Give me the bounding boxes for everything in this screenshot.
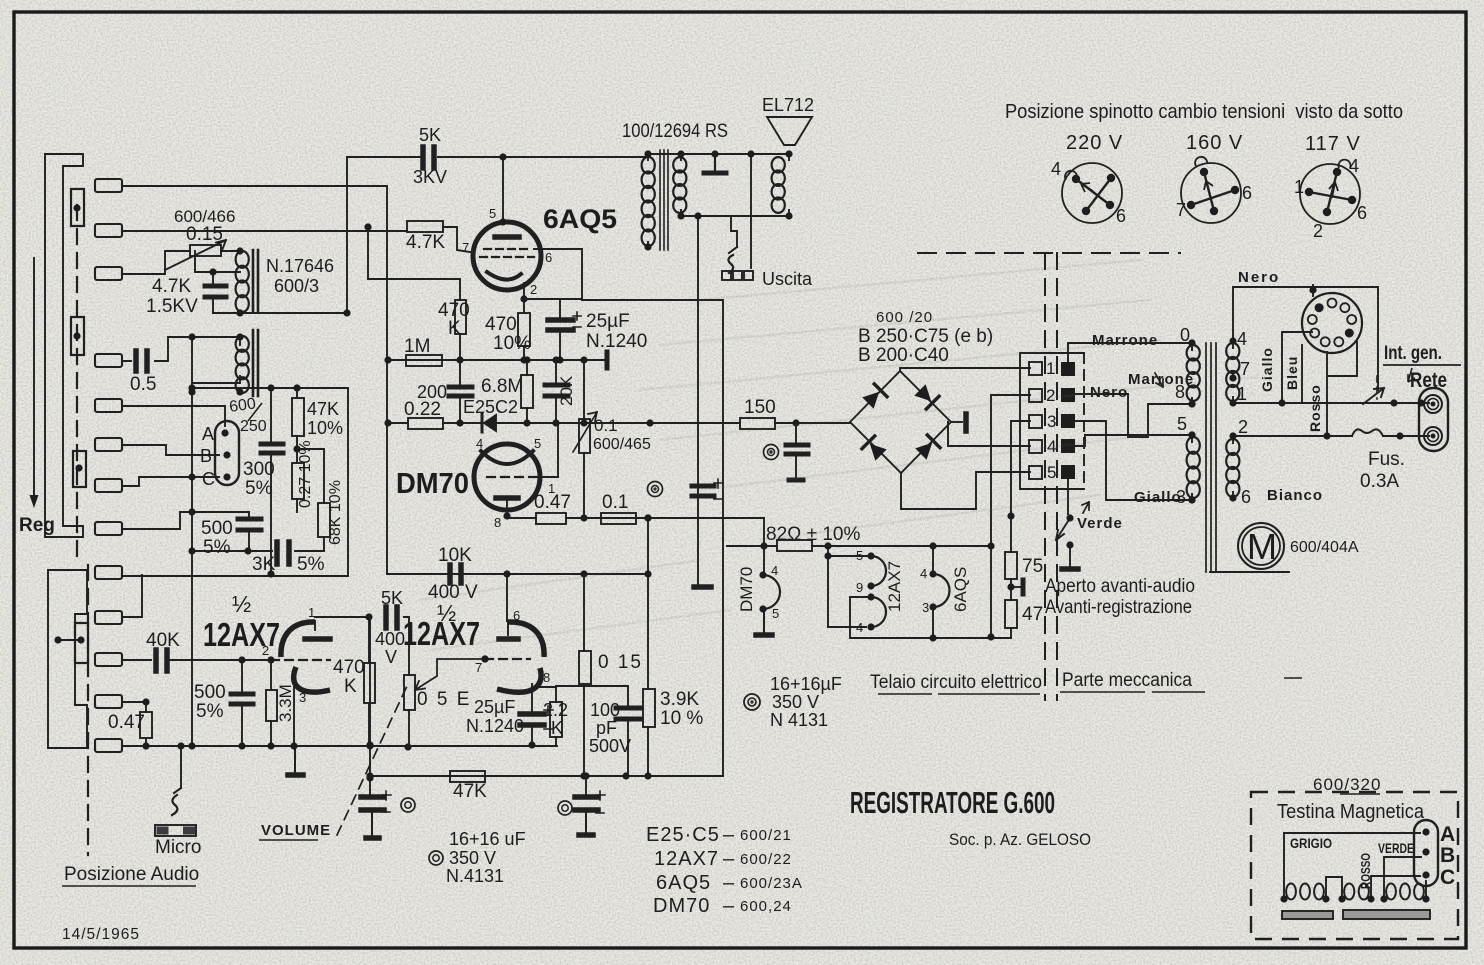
svg-text:9: 9 [856, 580, 863, 595]
svg-text:Posizione spinotto cambio tens: Posizione spinotto cambio tensioni visto… [1005, 101, 1403, 123]
svg-text:47K: 47K [453, 781, 487, 802]
svg-text:C: C [1440, 866, 1455, 889]
svg-text:5: 5 [1177, 414, 1187, 434]
svg-text:4: 4 [476, 436, 483, 451]
svg-text:Uscita: Uscita [762, 269, 813, 289]
svg-text:47: 47 [1022, 604, 1043, 625]
svg-text:6.8M: 6.8M [481, 376, 523, 397]
svg-text:–: – [723, 848, 735, 870]
svg-text:Int. gen.: Int. gen. [1384, 343, 1442, 364]
svg-text:25µF: 25µF [474, 697, 515, 717]
svg-text:ROSSO: ROSSO [1358, 853, 1373, 889]
svg-text:Rosso: Rosso [1307, 384, 1323, 432]
svg-text:4: 4 [1349, 156, 1359, 176]
svg-text:600/3: 600/3 [274, 276, 319, 296]
svg-text:1: 1 [1046, 359, 1055, 378]
svg-text:20K: 20K [557, 375, 576, 406]
svg-text:5%: 5% [196, 701, 224, 722]
svg-text:B 250·C75 (e b): B 250·C75 (e b) [858, 326, 993, 347]
svg-text:350 V: 350 V [772, 692, 819, 712]
svg-text:DM70: DM70 [653, 895, 710, 917]
svg-text:82Ω ± 10%: 82Ω ± 10% [766, 524, 860, 545]
svg-text:2: 2 [262, 643, 269, 658]
svg-text:160 V: 160 V [1186, 132, 1243, 154]
svg-text:350 V: 350 V [449, 848, 496, 868]
svg-text:0.47: 0.47 [108, 712, 145, 733]
svg-text:Bleu: Bleu [1284, 356, 1300, 390]
svg-text:½: ½ [232, 591, 251, 617]
svg-text:A: A [202, 424, 214, 444]
svg-text:8: 8 [1175, 382, 1185, 402]
svg-text:6: 6 [513, 608, 520, 623]
svg-text:E25·C5: E25·C5 [646, 824, 720, 846]
svg-text:6: 6 [1116, 206, 1126, 226]
svg-text:470: 470 [333, 657, 365, 678]
svg-text:8: 8 [494, 515, 501, 530]
svg-text:VOLUME: VOLUME [261, 822, 331, 839]
svg-text:0.5: 0.5 [130, 374, 156, 395]
svg-text:–: – [723, 895, 735, 917]
svg-text:500: 500 [194, 682, 226, 703]
svg-text:3.3M: 3.3M [276, 684, 295, 722]
svg-text:Bianco: Bianco [1267, 487, 1323, 504]
svg-text:B: B [1440, 844, 1455, 867]
svg-text:3K: 3K [252, 554, 276, 575]
svg-text:7: 7 [475, 660, 482, 675]
svg-text:12AX7: 12AX7 [654, 848, 719, 870]
svg-text:Aperto avanti-audio: Aperto avanti-audio [1045, 576, 1195, 597]
svg-text:16+16 uF: 16+16 uF [449, 829, 526, 849]
svg-text:5%: 5% [245, 478, 273, 499]
svg-text:40K: 40K [146, 630, 180, 651]
svg-text:K: K [551, 718, 563, 738]
svg-text:6: 6 [1242, 183, 1252, 203]
svg-text:220 V: 220 V [1066, 132, 1123, 154]
svg-text:6AQ5: 6AQ5 [656, 872, 711, 894]
svg-text:7: 7 [462, 240, 469, 255]
svg-text:6AQ5: 6AQ5 [543, 204, 617, 234]
svg-text:0.3A: 0.3A [1360, 471, 1399, 492]
svg-text:Verde: Verde [1077, 515, 1123, 532]
svg-text:2.2: 2.2 [543, 700, 568, 720]
svg-text:10%: 10% [493, 333, 531, 354]
svg-text:0.47: 0.47 [534, 492, 571, 513]
svg-text:3KV: 3KV [413, 167, 447, 187]
svg-text:K: K [344, 676, 357, 697]
svg-text:12AX7: 12AX7 [403, 615, 480, 652]
svg-text:25µF: 25µF [586, 311, 630, 332]
svg-text:Reg: Reg [19, 515, 55, 536]
svg-text:5: 5 [772, 606, 779, 621]
svg-text:0.15: 0.15 [186, 224, 223, 245]
svg-text:14/5/1965: 14/5/1965 [62, 926, 140, 943]
svg-text:0.1: 0.1 [602, 492, 628, 513]
svg-text:M: M [1247, 526, 1277, 567]
svg-text:117 V: 117 V [1305, 133, 1361, 155]
svg-text:1M: 1M [404, 336, 430, 357]
svg-text:75: 75 [1022, 556, 1043, 577]
svg-text:4: 4 [920, 566, 927, 581]
svg-text:7: 7 [1240, 359, 1250, 379]
svg-text:–: – [723, 872, 735, 894]
svg-text:100: 100 [590, 700, 620, 720]
svg-text:500: 500 [201, 518, 233, 539]
svg-text:B: B [200, 446, 212, 466]
svg-text:68K 10%: 68K 10% [327, 480, 344, 545]
svg-text:4.7K: 4.7K [406, 232, 445, 253]
svg-text:4: 4 [1237, 329, 1247, 349]
svg-text:pF: pF [596, 718, 617, 738]
svg-text:Avanti-registrazione: Avanti-registrazione [1045, 597, 1192, 618]
svg-text:2: 2 [530, 282, 537, 297]
svg-text:E25C2: E25C2 [463, 397, 518, 417]
svg-text:3: 3 [299, 690, 306, 705]
svg-text:Giallo: Giallo [1259, 347, 1275, 392]
svg-text:6: 6 [1241, 487, 1251, 507]
svg-text:4: 4 [1051, 159, 1061, 179]
svg-text:47K: 47K [307, 399, 339, 419]
svg-text:Micro: Micro [155, 837, 201, 858]
svg-text:5K: 5K [381, 588, 403, 608]
svg-text:Telaio circuito elettrico: Telaio circuito elettrico [870, 672, 1042, 693]
svg-text:10%: 10% [307, 418, 343, 438]
svg-text:1.5KV: 1.5KV [146, 296, 198, 317]
svg-text:REGISTRATORE G.600: REGISTRATORE G.600 [850, 785, 1055, 820]
svg-text:5K: 5K [419, 125, 441, 145]
svg-text:600/465: 600/465 [593, 436, 651, 453]
svg-text:6: 6 [545, 250, 552, 265]
svg-text:600/22: 600/22 [740, 851, 792, 868]
svg-text:C: C [202, 469, 215, 489]
svg-text:Nero: Nero [1238, 269, 1280, 286]
svg-text:5: 5 [1047, 463, 1056, 482]
svg-text:0: 0 [1180, 325, 1190, 345]
svg-text:1: 1 [1294, 177, 1304, 197]
svg-text:250: 250 [240, 418, 267, 435]
svg-text:Parte meccanica: Parte meccanica [1062, 670, 1192, 691]
svg-text:0.22: 0.22 [404, 399, 441, 420]
svg-text:16+16µF: 16+16µF [770, 674, 842, 694]
svg-text:8: 8 [543, 670, 550, 685]
svg-text:5: 5 [489, 206, 496, 221]
svg-text:1: 1 [308, 605, 315, 620]
svg-text:4.7K: 4.7K [152, 276, 191, 297]
svg-text:3.9K: 3.9K [660, 689, 699, 710]
svg-text:0 15: 0 15 [598, 652, 643, 673]
svg-text:VERDE: VERDE [1378, 841, 1414, 856]
svg-text:10K: 10K [438, 545, 472, 566]
svg-text:2: 2 [1313, 221, 1323, 241]
svg-text:3: 3 [1047, 412, 1056, 431]
svg-text:GRIGIO: GRIGIO [1290, 836, 1332, 851]
svg-text:5%: 5% [297, 554, 325, 575]
svg-text:2: 2 [1238, 417, 1248, 437]
svg-text:600/21: 600/21 [740, 827, 792, 844]
svg-text:1: 1 [1237, 384, 1247, 404]
svg-text:100/12694 RS: 100/12694 RS [622, 121, 728, 142]
svg-text:3: 3 [1176, 487, 1186, 507]
svg-text:0.27 10%: 0.27 10% [297, 440, 314, 508]
svg-text:300: 300 [243, 459, 275, 480]
svg-text:EL712: EL712 [762, 95, 814, 115]
svg-text:6AQS: 6AQS [951, 567, 970, 612]
svg-text:7: 7 [1176, 200, 1186, 220]
svg-text:N.1240: N.1240 [586, 331, 647, 352]
svg-text:0 5 E: 0 5 E [417, 689, 471, 710]
svg-text:400: 400 [375, 629, 405, 649]
svg-text:5: 5 [856, 548, 863, 563]
svg-text:DM70: DM70 [396, 468, 469, 500]
svg-text:4: 4 [856, 620, 863, 635]
svg-text:150: 150 [744, 397, 776, 418]
svg-text:–: – [723, 824, 735, 846]
svg-text:5%: 5% [203, 537, 231, 558]
svg-text:Giallo: Giallo [1134, 489, 1182, 506]
svg-text:2: 2 [1046, 386, 1055, 405]
svg-text:Testina Magnetica: Testina Magnetica [1277, 801, 1425, 823]
svg-text:Posizione Audio: Posizione Audio [64, 864, 199, 885]
svg-text:4: 4 [771, 563, 778, 578]
svg-text:N.17646: N.17646 [266, 256, 334, 276]
svg-text:470: 470 [485, 314, 517, 335]
svg-text:0.1: 0.1 [594, 416, 618, 435]
svg-text:Soc. p. Az. GELOSO: Soc. p. Az. GELOSO [949, 830, 1091, 849]
svg-text:3: 3 [922, 600, 929, 615]
svg-text:600/404A: 600/404A [1290, 539, 1359, 556]
svg-text:N.1240: N.1240 [466, 716, 524, 736]
svg-text:600,24: 600,24 [740, 898, 792, 915]
svg-text:12AX7: 12AX7 [885, 561, 904, 612]
svg-text:600/23A: 600/23A [740, 875, 803, 892]
svg-text:DM70: DM70 [737, 567, 756, 612]
svg-text:N.4131: N.4131 [446, 866, 504, 886]
svg-text:A: A [1440, 823, 1455, 846]
svg-text:5: 5 [534, 436, 541, 451]
svg-text:6: 6 [1357, 203, 1367, 223]
svg-text:Fus.: Fus. [1368, 449, 1405, 470]
svg-text:10 %: 10 % [660, 708, 703, 729]
svg-text:V: V [385, 647, 397, 667]
svg-text:N 4131: N 4131 [770, 710, 828, 730]
svg-text:K: K [448, 318, 461, 339]
svg-text:500V: 500V [589, 736, 631, 756]
svg-text:Rete: Rete [1410, 369, 1447, 392]
